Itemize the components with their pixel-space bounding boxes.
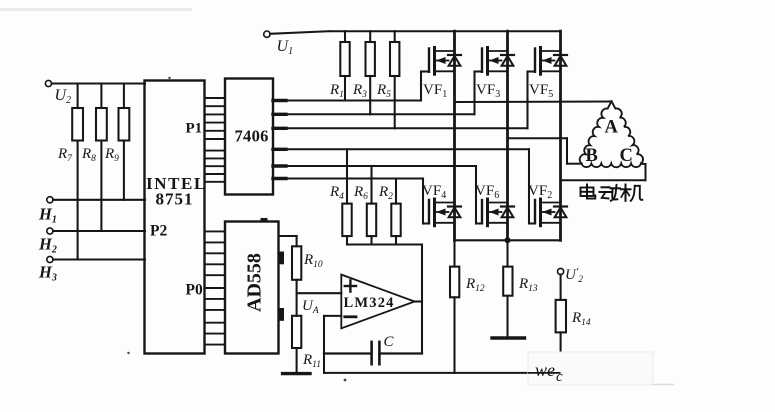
svg-text:C: C (384, 334, 395, 350)
svg-text:c: c (556, 369, 563, 385)
svg-text:LM324: LM324 (344, 295, 395, 311)
svg-text:we: we (535, 360, 555, 380)
svg-text:8751: 8751 (156, 190, 194, 209)
svg-text:A: A (605, 118, 619, 138)
svg-text:7406: 7406 (235, 127, 269, 146)
svg-text:B: B (586, 146, 598, 166)
svg-text:P1: P1 (186, 121, 203, 137)
svg-text:P0: P0 (186, 282, 203, 299)
svg-text:C: C (620, 146, 633, 166)
svg-text:AD558: AD558 (244, 253, 266, 312)
svg-text:P2: P2 (150, 223, 167, 240)
